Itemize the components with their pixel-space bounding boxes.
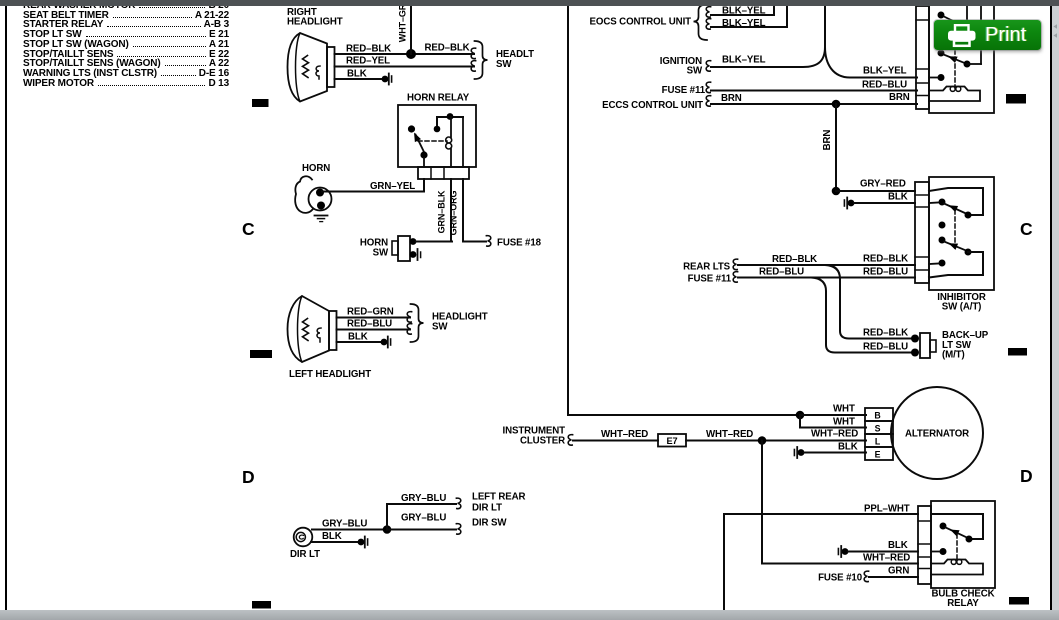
ground bulb check BLK — [838, 546, 848, 557]
wire RED-BLK rear lts — [738, 264, 915, 266]
grid letter D left — [242, 467, 255, 488]
horn relay switch arm — [416, 135, 425, 153]
wire BRN ECCS — [711, 103, 917, 105]
left headlight connector — [329, 311, 337, 350]
top toolbar bar — [0, 0, 1059, 6]
node WHT-GR / RED-BLK junction — [406, 49, 416, 59]
inhibitor dashed line — [954, 210, 956, 248]
section mark left B/C — [252, 99, 269, 107]
horn bell circle — [309, 188, 332, 211]
relay arm B — [944, 55, 968, 65]
wire BLK right headlight — [335, 78, 386, 80]
svg-text:HORN RELAY: HORN RELAY — [407, 93, 470, 104]
inhibitor contact dot 4 — [939, 237, 946, 244]
alternator terminal B — [865, 408, 893, 421]
inhibitor stub 1 — [929, 202, 938, 205]
left page border — [5, 6, 7, 611]
svg-text:RED–BLK: RED–BLK — [863, 254, 908, 265]
svg-text:GRY–BLU: GRY–BLU — [401, 513, 446, 524]
grid letter C right — [1020, 219, 1033, 240]
wire WHT to B terminal — [800, 414, 866, 416]
relay dashed line — [954, 50, 956, 88]
wire GRN — [869, 576, 918, 578]
left headlight filament 2 — [317, 328, 321, 342]
svg-text:SW: SW — [373, 248, 389, 259]
relay arm A — [944, 17, 953, 22]
wire RED-BLK branch to back-up sw — [826, 265, 912, 339]
svg-text:GRN–ORG: GRN–ORG — [449, 191, 459, 236]
svg-text:WHT–GR: WHT–GR — [398, 3, 408, 42]
svg-text:ECCS CONTROL UNIT: ECCS CONTROL UNIT — [602, 100, 703, 111]
svg-text:FUSE #11: FUSE #11 — [662, 85, 706, 96]
svg-text:SW: SW — [496, 59, 512, 70]
svg-text:WHT–RED: WHT–RED — [863, 553, 910, 564]
wire GRN-BLK vertical — [450, 179, 452, 242]
svg-text:RED–BLU: RED–BLU — [863, 342, 908, 353]
inhibitor contact dot 3 — [939, 222, 946, 229]
ground horn — [315, 215, 328, 217]
bulb check relay contact dot 3 — [940, 548, 947, 555]
svg-text:E: E — [875, 449, 881, 459]
wire RED-BLU fuse 11 lower — [738, 277, 915, 279]
bulb check relay dashed line — [956, 534, 958, 559]
right headlight connector — [327, 47, 335, 87]
relay box top right — [929, 4, 994, 113]
horn relay internal top rail — [437, 117, 463, 126]
bulb check relay box — [931, 501, 995, 588]
right scrollbar strip — [1052, 6, 1059, 611]
wire BLK-YEL ignition sw — [711, 47, 825, 67]
horn relay connector row — [418, 167, 469, 179]
bulb check relay arm — [946, 528, 968, 538]
ground dir lt — [358, 537, 368, 548]
svg-text:RED–BLK: RED–BLK — [346, 44, 391, 55]
inhibitor contact dot 5 — [965, 249, 972, 256]
wire BLK dir lt — [311, 541, 358, 543]
wire WHT-RED to bulb check relay — [762, 441, 918, 564]
hook FUSE #11 — [706, 82, 710, 93]
node GRY-BLU junction — [383, 525, 392, 534]
horn switch body — [398, 236, 410, 261]
svg-text:BLK–YEL: BLK–YEL — [863, 66, 907, 77]
svg-text:BRN: BRN — [822, 130, 833, 151]
svg-text:GRY–RED: GRY–RED — [860, 179, 906, 190]
back-up lt sw contact dots — [911, 335, 919, 343]
hook LEFT REAR DIR LT — [456, 498, 460, 509]
bottom status bar — [0, 610, 1059, 620]
horn relay coil wire upper — [450, 117, 452, 137]
wire GRN-YEL horn relay to horn — [323, 179, 424, 192]
lamp left headlight body — [288, 296, 330, 362]
inhibitor arm 2 — [944, 242, 966, 251]
wire BLK bulb check — [848, 551, 918, 553]
svg-text:RED–GRN: RED–GRN — [347, 307, 394, 318]
svg-text:LEFT HEADLIGHT: LEFT HEADLIGHT — [289, 369, 371, 380]
hook EOCS wire 2 — [706, 19, 710, 30]
svg-text:CLUSTER: CLUSTER — [520, 436, 565, 447]
svg-text:E7: E7 — [666, 436, 677, 446]
wire RED-BLU branch to back-up sw — [812, 278, 912, 353]
bulb check relay connector — [918, 506, 931, 584]
hook FUSE #11 lower — [733, 272, 737, 283]
horn relay coil wire lower — [450, 149, 452, 167]
ground right headlight — [382, 74, 392, 85]
bulb check relay top rail — [931, 514, 983, 539]
svg-text:GRY–BLU: GRY–BLU — [401, 493, 446, 504]
section mark right B/C — [1006, 94, 1026, 104]
inhibitor connector — [915, 182, 929, 283]
wire GRY-BLU to dir sw — [387, 529, 456, 531]
relay stub D — [929, 77, 938, 79]
alternator terminal E — [865, 447, 893, 460]
svg-text:FUSE #10: FUSE #10 — [818, 573, 862, 584]
hook RED-BLU at sw — [407, 324, 411, 335]
hook DIR SW — [456, 524, 460, 535]
back-up lt sw body — [920, 333, 930, 358]
svg-text:B: B — [874, 410, 880, 420]
wire BLK-YEL from top — [825, 5, 917, 78]
brace EOCS CONTROL UNIT — [694, 5, 708, 41]
horn switch contact dot top — [410, 238, 417, 245]
svg-text:RED–BLK: RED–BLK — [863, 328, 908, 339]
wire WHT vertical from top — [568, 5, 800, 415]
svg-text:GRN–YEL: GRN–YEL — [370, 181, 415, 192]
alternator terminal S — [865, 421, 893, 434]
hook RED-YEL at HEADLT SW — [471, 61, 475, 72]
wire RED-BLK right headlight to HEADLT SW — [335, 53, 475, 55]
svg-text:DIR LT: DIR LT — [290, 549, 320, 560]
horn relay contact dot top — [447, 113, 454, 120]
inhibitor contact dot 6 — [939, 260, 946, 267]
hook INSTRUMENT CLUSTER — [568, 435, 572, 446]
alternator terminal L — [865, 434, 893, 447]
wire horn switch to GRN-BLK — [416, 241, 452, 243]
horn relay dashed link — [418, 140, 447, 142]
svg-text:GRN–BLK: GRN–BLK — [437, 190, 447, 233]
svg-text:LEFT REAR: LEFT REAR — [472, 492, 526, 503]
svg-text:BLK: BLK — [838, 442, 858, 453]
section mark right C/D — [1008, 348, 1027, 356]
relay link B — [967, 63, 981, 65]
svg-text:FUSE #18: FUSE #18 — [497, 238, 542, 249]
horn terminal dot top — [316, 189, 324, 197]
horn relay coil — [446, 137, 452, 143]
svg-text:PPL–WHT: PPL–WHT — [864, 504, 910, 515]
alternator circle — [891, 387, 983, 479]
svg-text:RED–YEL: RED–YEL — [346, 56, 390, 67]
svg-text:BLK–YEL: BLK–YEL — [722, 6, 766, 17]
wire RED-GRN — [337, 317, 411, 319]
svg-text:BRN: BRN — [721, 93, 742, 104]
node BRN junction — [832, 100, 841, 109]
hook RED-BLK at HEADLT SW — [471, 48, 475, 59]
relay contact dot A — [938, 12, 945, 19]
wire WHT to S terminal — [800, 415, 866, 428]
inhibitor top rail — [929, 188, 983, 215]
brace HEADLT SW — [475, 41, 488, 79]
svg-text:BLK–YEL: BLK–YEL — [722, 55, 766, 66]
hook EOCS wire 1 — [706, 7, 710, 18]
hook FUSE #10 — [864, 571, 868, 582]
relay box horn relay — [398, 105, 476, 167]
ground left headlight — [381, 337, 391, 348]
svg-text:RELAY: RELAY — [947, 598, 979, 609]
dir lt bulb — [294, 528, 313, 547]
node BRN / GRY-RED junction — [832, 187, 841, 196]
right page border — [1050, 6, 1052, 611]
grid letter C left — [242, 219, 255, 240]
node WHT junction — [796, 411, 805, 420]
svg-text:BLK: BLK — [348, 332, 368, 343]
bulb check relay contact dot 2 — [966, 536, 973, 543]
wire GRY-BLU dir lt — [312, 529, 387, 531]
svg-text:SW (A/T): SW (A/T) — [942, 302, 982, 313]
svg-text:FUSE #11: FUSE #11 — [688, 274, 732, 285]
wire WHT-RED cluster to E7 — [573, 440, 658, 442]
node WHT-RED junction — [758, 436, 767, 445]
svg-text:S: S — [875, 423, 881, 433]
relay rail vertical 1 — [966, 5, 968, 20]
svg-text:WHT: WHT — [833, 417, 855, 428]
horn switch contact dot bottom — [410, 251, 417, 258]
wire GRY-RED — [836, 190, 915, 192]
inhibitor bottom rail — [929, 252, 983, 278]
svg-text:BLK: BLK — [347, 69, 367, 80]
brace HEADLIGHT SW — [411, 304, 424, 342]
svg-text:WHT–RED: WHT–RED — [706, 429, 753, 440]
wire GRN-ORG vertical to FUSE #18 — [463, 179, 486, 242]
inhibitor stub 6 — [929, 263, 939, 266]
svg-text:WHT: WHT — [833, 404, 855, 415]
wire BLK-YEL EOCS 1 — [711, 5, 774, 15]
svg-text:SW: SW — [687, 66, 703, 77]
svg-text:L: L — [875, 436, 881, 446]
svg-text:WHT–RED: WHT–RED — [601, 429, 648, 440]
inhibitor contact dot 1 — [939, 199, 946, 206]
svg-text:GRN: GRN — [888, 566, 909, 577]
wire BLK inhibitor — [854, 202, 915, 204]
svg-text:HEADLIGHT: HEADLIGHT — [287, 17, 343, 28]
section mark left D/E — [252, 601, 271, 609]
bulb check relay coil — [931, 560, 983, 575]
inhibitor box — [929, 177, 994, 290]
svg-text:EOCS CONTROL UNIT: EOCS CONTROL UNIT — [590, 17, 692, 28]
grid letter D right — [1020, 466, 1033, 487]
svg-text:BRN: BRN — [889, 92, 910, 103]
wire GRY-BLU to left rear dir lt — [387, 504, 456, 530]
svg-text:SW: SW — [432, 322, 448, 333]
wire BRN vertical — [835, 104, 837, 191]
hook FUSE #18 — [486, 236, 490, 247]
horn relay right rail — [462, 117, 464, 167]
wire RED-YEL — [335, 66, 475, 68]
wire RED-BLU fuse 11 — [711, 90, 917, 92]
wire BLK left headlight — [337, 341, 385, 343]
horn relay pin wire — [423, 158, 425, 167]
inhibitor arm 1 — [944, 204, 966, 214]
ground inhibitor BLK — [844, 198, 854, 209]
wire WHT-GR vertical — [410, 5, 412, 54]
left headlight filament 1 — [303, 319, 309, 341]
lamp right headlight body — [288, 33, 328, 102]
print button — [934, 20, 1041, 50]
horn terminal dot bottom — [317, 202, 325, 210]
bulb check relay stub 3 — [931, 551, 940, 553]
bulb check relay contact dot 1 — [940, 523, 947, 530]
relay contact dot B — [938, 50, 945, 57]
wire RED-BLU left headlight — [337, 329, 411, 331]
svg-text:RED–BLU: RED–BLU — [863, 267, 908, 278]
relay coil top right — [929, 87, 980, 102]
svg-text:BLK: BLK — [322, 531, 342, 542]
hook REAR LTS — [733, 259, 737, 270]
scroll arrow marks — [1053, 24, 1057, 29]
wire BLK to E terminal — [804, 452, 866, 454]
svg-text:ALTERNATOR: ALTERNATOR — [905, 429, 969, 440]
section mark right D/E — [1009, 597, 1029, 605]
ground horn switch — [417, 249, 419, 260]
relay connector top right — [916, 6, 929, 109]
relay contact dot D — [938, 74, 945, 81]
hook ECCS CONTROL UNIT — [706, 96, 710, 107]
right headlight filament 1 — [303, 56, 309, 78]
svg-text:BLK: BLK — [888, 540, 908, 551]
wire GRN-YEL horn lead — [322, 191, 333, 193]
index list column — [23, 1, 229, 89]
svg-text:WHT–RED: WHT–RED — [811, 429, 858, 440]
svg-text:RED–BLK: RED–BLK — [425, 43, 470, 54]
horn body — [295, 176, 312, 213]
svg-text:BLK–YEL: BLK–YEL — [722, 18, 766, 29]
svg-text:RED–BLU: RED–BLU — [862, 80, 907, 91]
horn relay contact dot bottom — [420, 151, 427, 158]
svg-text:GRY–BLU: GRY–BLU — [322, 519, 367, 530]
horn relay contact dot mid — [434, 126, 441, 133]
connector E7 box — [658, 434, 686, 447]
hook RED-GRN at sw — [407, 312, 411, 323]
svg-text:RED–BLK: RED–BLK — [772, 254, 817, 265]
svg-text:HORN: HORN — [302, 163, 330, 174]
ground alternator E — [794, 447, 804, 458]
inhibitor contact dot 2 — [965, 212, 972, 219]
printer icon — [948, 25, 976, 46]
horn relay contact dot left — [408, 125, 415, 132]
wire WHT-RED E7 to L terminal — [686, 440, 866, 442]
right headlight filament 2 — [316, 66, 320, 79]
svg-text:RED–BLU: RED–BLU — [347, 319, 392, 330]
svg-text:DIR LT: DIR LT — [472, 503, 502, 514]
svg-text:REAR LTS: REAR LTS — [683, 262, 731, 273]
relay contact dot C — [964, 61, 971, 68]
svg-text:(M/T): (M/T) — [942, 350, 965, 361]
wire BLK-YEL EOCS 2 — [711, 5, 787, 27]
relay rail vertical 2 — [980, 5, 982, 64]
svg-text:DIR SW: DIR SW — [472, 518, 507, 529]
wire PPL-WHT — [724, 514, 918, 610]
section mark left C/D — [250, 350, 272, 358]
svg-text:RED–BLU: RED–BLU — [759, 267, 804, 278]
hook IGNITION SW — [706, 61, 710, 72]
svg-text:BLK: BLK — [888, 192, 908, 203]
